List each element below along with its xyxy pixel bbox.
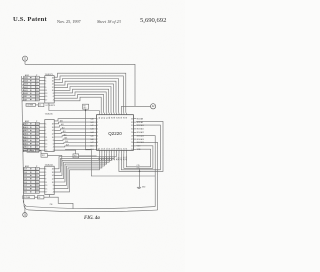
svg-text:16: 16 xyxy=(109,148,111,150)
wire: U4 row 3 tap xyxy=(22,176,24,178)
junction: U3 row 4 xyxy=(30,133,31,134)
wire: AD0 to U5 left pin 2 xyxy=(54,122,94,124)
junction: U4 row 1 xyxy=(30,168,31,169)
junction: U2 row 5 xyxy=(30,90,31,91)
U3 row 2 name cell xyxy=(24,126,36,129)
svg-text:5: 5 xyxy=(45,172,46,174)
svg-text:27: 27 xyxy=(131,139,133,141)
wire: U4 row 4 tap xyxy=(22,179,24,181)
resistor R4 box xyxy=(73,154,79,158)
U2 row 2 pin cell xyxy=(36,79,40,82)
wire: U3 row 9 tap xyxy=(22,151,25,153)
wire: AD3 to U5 left pin 5 xyxy=(54,132,94,133)
U5 bottom pin 11 xyxy=(123,150,125,153)
U4 row 7 name cell xyxy=(24,187,36,190)
wire: U4 row 1 to IC xyxy=(39,168,45,170)
node 23 (bottom-left off-page connector) xyxy=(23,213,27,217)
wire: U3 row 8 tap xyxy=(22,147,25,149)
node OUTENB2 label box xyxy=(27,149,39,152)
svg-text:74LS245: 74LS245 xyxy=(45,114,54,116)
junction: U4 row 7 xyxy=(30,188,31,189)
wire: bottom rail 1 xyxy=(23,201,155,209)
resistor R3 box xyxy=(83,104,89,109)
wire: U3 row 1 to IC xyxy=(39,123,45,125)
wire: U2 row 3 to IC xyxy=(39,83,45,85)
svg-text:MD6/A14: MD6/A14 xyxy=(137,138,144,141)
wire: LA7 staircase xyxy=(54,92,106,113)
wire: U4 row 3 to IC xyxy=(39,174,45,176)
svg-text:32: 32 xyxy=(131,122,133,124)
svg-text:20: 20 xyxy=(119,148,121,150)
wire: U2 row 7 to IC xyxy=(39,95,45,97)
wire: U2 row 7 tap xyxy=(22,97,24,99)
svg-text:19: 19 xyxy=(116,148,118,150)
U2 row 7 name cell xyxy=(24,95,36,98)
svg-text:9: 9 xyxy=(45,134,46,136)
wire: U2 row 3 tap xyxy=(22,84,24,86)
svg-text:4: 4 xyxy=(53,192,54,194)
wire: U4 row 6 tap xyxy=(23,186,25,188)
junction: U4 row 8 xyxy=(30,191,31,192)
svg-text:8: 8 xyxy=(53,140,54,142)
wire: U2 row 2 to IC xyxy=(39,80,45,82)
svg-text:4: 4 xyxy=(53,147,54,149)
wire: bus to node 23 xyxy=(24,206,26,213)
IC U3 body xyxy=(45,120,54,152)
U5 top pin 7 xyxy=(113,113,115,115)
svg-text:33: 33 xyxy=(131,119,133,121)
U3 row 5 name cell xyxy=(24,136,36,139)
U5 top pin 6 xyxy=(111,113,113,115)
U3 row 5 pin cell xyxy=(36,136,40,139)
wire: OUTENB to R2 xyxy=(36,104,39,106)
U5 right pin 3 MD2/A10 xyxy=(133,125,136,127)
U5 left pin 8 LA7 xyxy=(94,142,96,144)
wire: D1 staircase to U5 bottom xyxy=(54,153,114,172)
svg-text:6: 6 xyxy=(53,96,54,98)
wire: AD2 to U5 left pin 4 xyxy=(54,129,94,131)
wire: R3 to run xyxy=(85,109,87,110)
svg-text:3: 3 xyxy=(45,169,46,171)
U4 row 3 pin cell xyxy=(36,174,40,177)
wire: U4 row 1 tap xyxy=(22,169,24,171)
svg-text:13: 13 xyxy=(102,148,104,150)
svg-text:8: 8 xyxy=(97,142,98,144)
svg-text:25: 25 xyxy=(131,146,133,148)
U5 left pin 7 LA6 xyxy=(94,138,96,140)
U5 left pin 4 LA3 xyxy=(94,128,96,130)
wire: U3 out to R4 xyxy=(54,150,75,154)
wire: top loop run down to node 22 tee xyxy=(25,64,135,106)
wire: U4 row 8 to IC xyxy=(39,191,45,193)
junction: U2 row 7 xyxy=(30,96,31,97)
U5 top pin 3 xyxy=(103,113,105,115)
U5 top pin 8 xyxy=(116,113,118,115)
wire: U5 right pin 1 wrap to bottom pin xyxy=(119,121,163,171)
svg-text:43: 43 xyxy=(102,117,104,119)
U5 top pin 11 xyxy=(123,113,125,115)
svg-text:9: 9 xyxy=(97,146,98,148)
wire: LA8 staircase xyxy=(54,95,103,113)
svg-text:15: 15 xyxy=(45,143,47,145)
svg-text:16: 16 xyxy=(52,172,54,174)
IC U4 body xyxy=(45,166,54,194)
U5 bottom pin 4 xyxy=(106,150,108,153)
svg-text:44: 44 xyxy=(99,117,101,119)
U5 top pin 10 xyxy=(121,113,123,115)
wire: LA5 staircase xyxy=(54,87,111,113)
junction: U2 row 2 xyxy=(30,80,31,81)
U5 right pin 8 MD7/A15 xyxy=(133,142,136,144)
wire: U5 right pin 2 wrap to bottom pin xyxy=(121,125,160,170)
U2 row 4 name cell xyxy=(24,86,36,89)
node 22 (right off-page connector) xyxy=(151,104,156,109)
wire: LA4 staircase xyxy=(54,84,113,113)
U3 row 7 pin cell xyxy=(36,142,40,145)
U5 bottom pin 5 xyxy=(108,150,110,153)
wire: U2 row 8 to IC xyxy=(39,99,45,101)
U4 row 7 pin cell xyxy=(36,187,40,190)
svg-text:41: 41 xyxy=(107,117,109,119)
wire: D6 staircase to U5 bottom xyxy=(54,153,102,188)
U4 row 2 pin cell xyxy=(36,171,40,174)
wire: node 21 leader xyxy=(24,61,26,64)
wire: U3 row 8 to IC xyxy=(39,146,45,148)
junction: OE net xyxy=(85,110,86,111)
wire: D3 staircase to U5 bottom xyxy=(54,153,109,178)
svg-text:18: 18 xyxy=(52,124,54,126)
wire: U3 row 9 to IC xyxy=(39,149,45,151)
svg-text:42: 42 xyxy=(104,117,106,119)
svg-text:10: 10 xyxy=(52,182,54,184)
wire: U4 row 2 tap xyxy=(22,172,24,174)
U5 bottom pin 1 xyxy=(98,150,100,153)
svg-text:18: 18 xyxy=(52,77,54,79)
U5 right pin 4 MD3/A11 xyxy=(133,128,136,130)
svg-text:30: 30 xyxy=(131,129,133,131)
U2 row 1 pin cell xyxy=(36,76,40,79)
wire: U3 row 4 tap xyxy=(23,134,24,136)
svg-text:OUTENB: OUTENB xyxy=(28,150,35,152)
svg-text:17: 17 xyxy=(45,147,47,149)
wire: D5 staircase to U5 bottom xyxy=(54,153,104,185)
U3 row 3 name cell xyxy=(24,129,36,132)
wire: U3 row 6 to IC xyxy=(39,139,45,141)
svg-text:MD0/A8: MD0/A8 xyxy=(137,118,143,121)
junction: U2 row 6 xyxy=(30,93,31,94)
wire: U4 row 2 to IC xyxy=(39,171,45,173)
junction: U3 row 1 xyxy=(30,123,31,124)
wire: bottom rail 2 xyxy=(24,205,158,212)
wire: U3 row 6 tap xyxy=(22,141,25,143)
U5 left pin 6 LA5 xyxy=(94,135,96,137)
U5 bottom pin 6 xyxy=(111,150,113,153)
U5 right pin 10 GND xyxy=(133,148,136,150)
U4 row 6 name cell xyxy=(24,184,36,187)
U3 row 4 pin cell xyxy=(36,132,40,135)
U3 row 8 pin cell xyxy=(36,146,40,149)
svg-text:16: 16 xyxy=(52,81,54,83)
svg-text:22: 22 xyxy=(124,148,126,150)
wire: node 22 tee to U5 top pin xyxy=(122,106,151,112)
U3 row 7 name cell xyxy=(24,142,36,145)
U3 row 9 name cell xyxy=(24,149,36,152)
svg-text:13: 13 xyxy=(45,185,47,187)
junction: U3 row 6 xyxy=(30,140,31,141)
U2 row 5 name cell xyxy=(24,89,36,92)
U5 top pin 5 xyxy=(108,113,110,115)
svg-text:21: 21 xyxy=(121,148,123,150)
U4 row 4 pin cell xyxy=(36,177,40,180)
junction: U2 row 8 xyxy=(30,99,31,100)
svg-text:734: 734 xyxy=(50,204,53,206)
wire: AD5 to U5 left pin 7 xyxy=(54,139,94,140)
U2 row 8 name cell xyxy=(24,98,36,101)
svg-text:24: 24 xyxy=(131,149,133,151)
resistor network RP1 row xyxy=(26,104,36,107)
svg-text:10: 10 xyxy=(97,149,99,151)
U5 right pin 5 MD4/A12 xyxy=(133,131,136,133)
U3 row 8 name cell xyxy=(24,146,36,149)
svg-text:40: 40 xyxy=(109,117,111,119)
wire: LA9 staircase xyxy=(54,97,101,113)
wire: U2 row 4 to IC xyxy=(39,86,45,88)
U4 row 8 pin cell xyxy=(36,191,40,194)
U5 left pin 2 LA1 xyxy=(94,121,96,123)
wire: U4 bottom pin xyxy=(48,195,50,198)
junction: U4 row 5 xyxy=(30,181,31,182)
svg-text:6: 6 xyxy=(97,135,98,137)
svg-text:MD4/A12: MD4/A12 xyxy=(137,131,144,134)
svg-text:5: 5 xyxy=(97,132,98,134)
svg-text:R3: R3 xyxy=(83,106,85,108)
svg-text:U2 74LS373: U2 74LS373 xyxy=(46,105,55,107)
U3 row 2 pin cell xyxy=(36,126,40,129)
wire: AD4 to U5 left pin 6 xyxy=(54,136,94,137)
wire: U5 right pin 9 wrap to bottom pin xyxy=(124,146,153,169)
svg-text:23: 23 xyxy=(126,148,128,150)
U4 row 2 name cell xyxy=(24,171,36,174)
svg-text:11: 11 xyxy=(45,137,47,139)
wire: D0 staircase to U5 bottom xyxy=(54,153,116,169)
wire: AD1 to U5 left pin 3 xyxy=(54,126,94,128)
wire: U3 row 4 to IC xyxy=(39,133,45,135)
svg-text:11: 11 xyxy=(45,182,47,184)
U5 left pin 5 LA4 xyxy=(94,131,96,133)
svg-text:19: 19 xyxy=(45,150,47,152)
wire: U3 row 2 tap xyxy=(23,127,24,129)
resistor R2 box xyxy=(38,103,44,107)
junction: U4 row 2 xyxy=(30,172,31,173)
wire: LA2 staircase xyxy=(54,79,118,113)
svg-text:36: 36 xyxy=(119,117,121,119)
junction: U3 row 7 xyxy=(30,143,31,144)
U3 row 3 pin cell xyxy=(36,129,40,132)
U4 row 5 pin cell xyxy=(36,181,40,184)
wire: C15 to ground xyxy=(139,171,141,187)
wire: LA6 staircase xyxy=(54,89,108,113)
svg-text:7: 7 xyxy=(45,84,46,86)
wire: U2 row 2 tap xyxy=(22,81,24,83)
U5 top pin 1 xyxy=(98,113,100,115)
svg-text:14: 14 xyxy=(52,84,54,86)
junction: U4 row 4 xyxy=(30,178,31,179)
wire: U4 row 4 to IC xyxy=(39,178,45,180)
wire: U2 row 6 to IC xyxy=(39,92,45,94)
U3 row 6 pin cell xyxy=(36,139,40,142)
svg-text:750: 750 xyxy=(74,156,77,158)
wire: D2 staircase to U5 bottom xyxy=(54,153,111,175)
wire: U4 row 7 tap xyxy=(23,189,25,191)
svg-text:35: 35 xyxy=(121,117,123,119)
wire: U3 row 2 to IC xyxy=(39,126,45,128)
wire: to R5 xyxy=(39,151,41,154)
U3 row 6 name cell xyxy=(24,139,36,142)
wire: U5 right pin 10 wrap to bottom pin xyxy=(126,149,150,167)
junction: U2 row 4 xyxy=(30,86,31,87)
wire: OE stub to U5 top pin 1 xyxy=(98,111,100,113)
svg-text:17: 17 xyxy=(111,148,113,150)
wire: U3 row 7 to IC xyxy=(39,143,45,145)
svg-text:33: 33 xyxy=(126,117,128,119)
wire: U4 row 7 to IC xyxy=(39,188,45,190)
svg-text:Q2220: Q2220 xyxy=(108,131,122,136)
U5 right pin 2 MD1/A9 xyxy=(133,121,136,123)
svg-text:11: 11 xyxy=(45,90,47,92)
U2 row 8 pin cell xyxy=(36,98,40,101)
wire: LA0 staircase xyxy=(54,73,126,113)
wire: U2 row 4 tap xyxy=(22,87,24,89)
svg-text:9: 9 xyxy=(45,87,46,89)
wire: LA3 staircase xyxy=(54,81,116,113)
svg-text:39: 39 xyxy=(111,117,113,119)
resistor R5 box xyxy=(41,154,48,158)
svg-text:3: 3 xyxy=(45,124,46,126)
svg-text:17: 17 xyxy=(45,192,47,194)
junction: U3 row 3 xyxy=(30,130,31,131)
svg-text:13: 13 xyxy=(45,140,47,142)
svg-text:18: 18 xyxy=(52,169,54,171)
wire: U2 row 6 tap xyxy=(22,94,24,96)
svg-text:2: 2 xyxy=(97,122,98,124)
node GNDSEL label box xyxy=(23,196,35,199)
U5 bottom pin 7 xyxy=(113,150,115,153)
U5 bottom pin 8 xyxy=(116,150,118,153)
svg-text:18: 18 xyxy=(114,148,116,150)
U4 row 8 name cell xyxy=(24,191,36,194)
wire: U3 row 5 tap xyxy=(22,137,25,139)
node 21 (top-left off-page connector) xyxy=(23,56,28,61)
wire: U2 row 5 tap xyxy=(22,90,24,92)
svg-text:MD2/A10: MD2/A10 xyxy=(137,124,144,127)
svg-text:8: 8 xyxy=(53,93,54,95)
wire: D7 staircase to U5 bottom xyxy=(54,153,99,192)
svg-text:14: 14 xyxy=(52,175,54,177)
U5 bottom pin 2 xyxy=(101,150,103,153)
wire: R5 to U4 enable xyxy=(48,155,62,166)
svg-text:104: 104 xyxy=(137,167,140,169)
junction: U3 row 9 xyxy=(30,150,31,151)
wire: U2 row 1 to IC xyxy=(39,77,45,79)
svg-text:12: 12 xyxy=(52,134,54,136)
U2 row 7 pin cell xyxy=(36,95,40,98)
svg-text:14: 14 xyxy=(104,148,106,150)
wire: U2 OE to R3 and U5 top pin 1 xyxy=(49,103,100,111)
U3 row 9 pin cell xyxy=(36,149,40,152)
svg-text:4K7: 4K7 xyxy=(83,107,86,109)
svg-text:4: 4 xyxy=(97,129,98,131)
U5 bottom pin 12 xyxy=(125,150,127,153)
wire: U3 row 3 tap xyxy=(23,131,24,133)
U2 row 2 name cell xyxy=(24,79,36,82)
svg-text:14: 14 xyxy=(52,130,54,132)
U5 bottom pin 9 xyxy=(118,150,120,153)
svg-text:3: 3 xyxy=(97,125,98,127)
wire: R4 to U5 xyxy=(79,155,97,157)
svg-text:9: 9 xyxy=(45,179,46,181)
wire: U5 right pin 8 riser to rail 2 xyxy=(136,142,157,210)
svg-text:3: 3 xyxy=(45,77,46,79)
U3 row 4 name cell xyxy=(24,132,36,135)
svg-text:10: 10 xyxy=(52,137,54,139)
svg-text:8: 8 xyxy=(53,185,54,187)
svg-text:37: 37 xyxy=(116,117,118,119)
U4 row 3 name cell xyxy=(24,174,36,177)
svg-text:OUTENB: OUTENB xyxy=(27,105,34,107)
wire: U2 row 8 tap xyxy=(22,100,24,102)
wire: bus to OUTENB2 box xyxy=(24,150,27,152)
svg-text:7: 7 xyxy=(45,130,46,132)
svg-text:31: 31 xyxy=(131,125,133,127)
svg-text:5: 5 xyxy=(45,81,46,83)
wire: U2 row 5 to IC xyxy=(39,89,45,91)
wire: U4 row 5 to IC xyxy=(39,181,45,183)
U5 top pin 12 xyxy=(125,113,127,115)
svg-text:4: 4 xyxy=(53,99,54,101)
U5 left pin 1 LA0 xyxy=(94,118,96,120)
svg-text:12: 12 xyxy=(52,179,54,181)
wire: D4 staircase to U5 bottom xyxy=(54,153,106,182)
svg-text:2K2: 2K2 xyxy=(42,155,45,157)
U5 top pin 9 xyxy=(118,113,120,115)
U5 right pin 6 MD5/A13 xyxy=(133,135,136,137)
chip U5 Q2220 xyxy=(97,115,134,151)
wire: U3 row 1 tap xyxy=(22,124,23,126)
wire: U4 row 8 tap xyxy=(23,192,25,194)
wire: GNDSEL to R6 xyxy=(35,196,38,198)
ground symbol xyxy=(137,186,141,188)
junction: U3 row 5 xyxy=(30,136,31,137)
U2 row 3 name cell xyxy=(24,83,36,86)
U3 row 1 pin cell xyxy=(36,122,40,125)
U4 row 1 pin cell xyxy=(36,167,40,170)
svg-text:12: 12 xyxy=(52,87,54,89)
wire: left common bus vertical xyxy=(22,76,24,203)
U2 row 1 name cell xyxy=(24,76,36,79)
svg-text:6: 6 xyxy=(53,143,54,145)
svg-text:7: 7 xyxy=(45,175,46,177)
junction: U4 row 6 xyxy=(30,185,31,186)
svg-text:29: 29 xyxy=(131,132,133,134)
U4 row 4 name cell xyxy=(24,177,36,180)
svg-text:34: 34 xyxy=(124,117,126,119)
U2 row 4 pin cell xyxy=(36,86,40,89)
U5 left pin 10 CLK xyxy=(94,148,96,150)
wire: U5 right pin 6 riser to rail 1 xyxy=(136,136,155,207)
wire: U3 row 3 to IC xyxy=(39,129,45,131)
U4 row 6 pin cell xyxy=(36,184,40,187)
IC U2 body xyxy=(45,76,54,103)
